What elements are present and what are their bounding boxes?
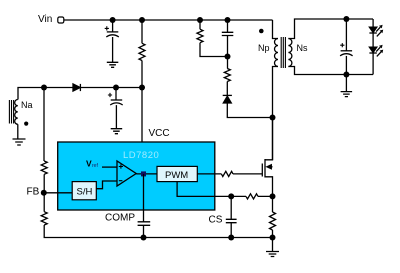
node junction CS [228, 193, 234, 199]
wire COMP [143, 174, 145, 222]
svg-text:COMP: COMP [105, 213, 135, 224]
wire Vref to op-amp [102, 166, 117, 168]
terminal Vin [38, 14, 64, 25]
wire top rail Vin to primary [64, 19, 273, 21]
ground (Na) [13, 124, 26, 145]
wire PWM CS input [177, 182, 231, 197]
svg-text:ref: ref [92, 163, 98, 169]
wire S/H to op-amp inverting input [96, 181, 117, 189]
capacitor C1 input bulk [105, 20, 119, 62]
node junction R1/VCC line [139, 85, 145, 91]
op-amp U1 LD7820 box [58, 142, 215, 210]
capacitor C2 snubber [222, 20, 234, 57]
svg-text:S/H: S/H [77, 187, 93, 198]
transformer T1 core [281, 37, 285, 68]
block S/H [72, 182, 96, 200]
node Vref [86, 159, 98, 170]
node COMP junction [141, 171, 146, 176]
LED D4 [369, 45, 383, 75]
wire PWM output (gate drive) [197, 173, 221, 175]
svg-text:PWM: PWM [165, 170, 188, 181]
resistor R2 snubber [197, 20, 228, 57]
resistor R4 FB upper [41, 88, 47, 193]
svg-text:Na: Na [21, 100, 33, 110]
wire op-amp output to PWM [136, 173, 157, 175]
diode D2 clamp [223, 95, 273, 117]
node junction C3 bottom [343, 72, 349, 78]
winding Na aux [15, 88, 44, 125]
diode D1 VCC rectifier [44, 84, 142, 91]
node junction C1/top rail [110, 17, 116, 23]
ground (C1) [107, 62, 119, 67]
wire primary top lead [273, 20, 279, 39]
ground (output) [341, 75, 353, 97]
transformer T1 winding Ns [288, 39, 308, 67]
wire FB to S/H [44, 192, 72, 194]
node FB [27, 187, 47, 198]
op-amp error amplifier [117, 161, 136, 186]
svg-text:Np: Np [258, 43, 270, 53]
resistor R3 clamp [224, 57, 230, 96]
node junction C3 top [343, 16, 349, 22]
wire VCC pin [141, 88, 143, 143]
node junction R1/top rail [139, 17, 145, 23]
LED D3 [369, 19, 383, 47]
svg-text:FB: FB [27, 187, 40, 198]
node junction Na/R4 [41, 85, 47, 91]
resistor R5 FB lower [41, 193, 143, 238]
node junction C6/bottom rail [228, 235, 234, 241]
node junction clamp/drain [270, 115, 276, 121]
capacitor C3 output [340, 19, 353, 75]
svg-text:VCC: VCC [149, 128, 170, 139]
winding Na core [9, 100, 13, 124]
capacitor C5 COMP [138, 222, 151, 238]
wire primary bottom lead to drain [273, 67, 279, 161]
resistor R6 gate [221, 171, 262, 176]
node junction R8/bottom rail [270, 235, 276, 241]
winding polarity dot Na [24, 122, 28, 126]
node junction C4/VCC line [113, 85, 119, 91]
block PWM [157, 166, 197, 181]
svg-text:Vin: Vin [38, 14, 52, 25]
transformer T1 winding Np [258, 39, 278, 67]
node junction source [270, 193, 276, 199]
resistor R1 startup [139, 20, 145, 88]
resistor R8 current sense [270, 196, 276, 251]
node junction COMP/bottom rail [141, 235, 147, 241]
transformer polarity dot Np [259, 29, 264, 34]
ground (C4) [111, 129, 123, 134]
capacitor C4 VCC [108, 88, 123, 129]
wire secondary loop [288, 19, 373, 75]
resistor R7 CS filter [231, 194, 272, 199]
node junction R2/top rail [197, 17, 203, 23]
wire bottom rail [144, 237, 273, 239]
svg-text:LD7820: LD7820 [123, 150, 159, 161]
svg-text:Ns: Ns [297, 43, 308, 53]
ground (sense) [266, 252, 279, 257]
svg-text:CS: CS [209, 215, 223, 226]
transistor Q1 NMOS [262, 118, 272, 197]
node clamp junction [225, 54, 231, 60]
node junction C2/top rail [225, 17, 231, 23]
capacitor C6 CS [226, 196, 237, 237]
